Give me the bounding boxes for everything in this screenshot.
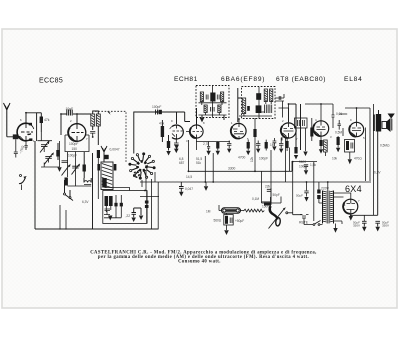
svg-text:+50µF: +50µF [235,219,244,223]
svg-text:EL84: EL84 [344,76,363,83]
tuning capacitor CV1 trimmers [38,132,62,172]
svg-text:50pF: 50pF [273,193,280,197]
svg-text:1M: 1M [206,210,211,214]
svg-text:,22: ,22 [126,214,131,218]
screen resistor comb [203,142,211,156]
volume pot P1 [206,205,244,214]
power transformer T5 [321,187,334,224]
ratio detector network [295,118,308,128]
heater wires V1 [60,205,66,230]
V2a ground [174,145,179,150]
anode resistor R2 [40,113,50,132]
svg-text:0,1M: 0,1M [252,197,259,201]
tube V6 EL84 [349,122,363,136]
svg-text:4700: 4700 [238,156,246,160]
FM antenna [4,103,11,137]
resistor R10 [216,142,220,156]
svg-text:ECC85: ECC85 [39,78,63,85]
resistor R7 [166,135,171,156]
tube envelope shading [68,124,356,214]
cathode R V5 [319,136,323,153]
wire tube top [26,113,37,141]
cap C7 [104,148,120,162]
resistor R14 [214,213,234,235]
svg-text:6X4: 6X4 [345,184,362,194]
heater run V7 [334,221,343,224]
cap C9 [104,195,123,218]
svg-text:14,5: 14,5 [186,175,192,179]
resistor R17 [97,150,100,199]
mains RETE [299,215,323,226]
svg-text:560Ω: 560Ω [214,219,222,223]
cap C16 0047 [179,182,193,196]
FM dipole antenna [388,114,395,131]
svg-text:470Ω: 470Ω [354,157,362,161]
svg-text:3300: 3300 [228,167,236,171]
svg-text:1,5k: 1,5k [310,163,316,167]
converter box frame [134,112,185,154]
oscillator box [65,135,89,152]
B+ arrow below transformer [333,224,337,233]
wires IF strip [239,104,301,150]
osc section wires [186,132,197,172]
tube V1a ECC85 triode a [17,123,34,141]
resistor R5 [105,196,109,212]
resistor R4 [83,152,86,178]
osc trimmer CV2 [62,152,71,177]
resistor R16 [310,118,313,141]
svg-text:2,7k: 2,7k [203,142,209,146]
wire V2 tops [177,108,197,125]
svg-text:6,3V: 6,3V [82,200,89,204]
svg-text:100pF: 100pF [152,105,161,109]
resistor R11 [246,140,250,156]
terminal blobs [145,201,149,204]
padder cap [65,178,68,186]
switch wires down [142,170,158,229]
wire V1b top [61,114,91,135]
filter cap C18 [353,221,367,232]
svg-text:0,5M: 0,5M [335,131,342,135]
tube V2b ECH81 triode [190,125,203,139]
svg-text:350V: 350V [353,224,360,228]
decoupling arrow [299,128,308,169]
cap C13 [227,141,231,154]
tube V5 6T8 triode [313,121,328,136]
oscillator coil L2 [84,178,91,186]
svg-text:47k: 47k [159,122,165,126]
svg-text:1500: 1500 [262,205,269,209]
tube V4 6T8 [281,123,296,139]
wires detector down [262,188,282,203]
grid cap C1 [14,139,18,157]
grid R V6 [332,136,340,161]
IF transformer T2 [238,87,275,123]
svg-text:0,047: 0,047 [185,187,193,191]
osc trimmer CV3 [68,152,85,187]
label 10pF top [66,107,74,116]
wire above AVC box [105,188,130,191]
vertical feeds mid [205,118,292,205]
svg-text:220V: 220V [321,187,330,191]
filter cap C19 [375,221,389,232]
cap C11 100pF [151,105,162,115]
right box outline [293,162,317,221]
cap C15 [279,138,283,153]
AVC box [103,191,147,224]
det cap C20 [267,189,271,191]
tube V1b ECC85 triode b [68,124,86,142]
resistor R12 [265,140,275,151]
cathode network V6 [345,140,382,175]
grid resistor R8 [159,120,165,142]
svg-text:1M: 1M [270,143,275,147]
wires output section [305,104,374,181]
mech link arrow [107,111,112,115]
T2 output wires [275,94,301,150]
wire antenna to grid [7,136,20,138]
bus wire heater [140,181,371,183]
cap C14 [256,141,260,154]
wire y196 [140,196,159,198]
pot mech zigzag link [244,209,265,212]
wire top node [37,112,42,114]
svg-text:6T8 (EABC80): 6T8 (EABC80) [276,76,326,83]
cathode resistor R1 [25,141,28,150]
bottom left rail [35,228,159,230]
pin numbers [20,118,365,207]
resistor R15 [264,202,271,205]
svg-text:0,5MΩ: 0,5MΩ [380,144,390,148]
svg-text:687: 687 [179,161,185,165]
svg-text:51k: 51k [196,161,202,165]
svg-text:100pF: 100pF [69,142,78,146]
transformer top feed [327,182,329,191]
svg-text:Consumo 40 watt.: Consumo 40 watt. [178,259,221,264]
comb header wire [196,141,230,143]
svg-text:0,0047: 0,0047 [110,148,120,152]
transformer taps [317,182,322,203]
IF transformer T1 [196,86,229,125]
mains ground [296,182,309,202]
cap C10 .22 [126,208,144,222]
coupling coil L1 [13,134,19,139]
tone lever arm [269,197,293,229]
FM IF coil pair L3 [91,111,101,145]
svg-text:100pF: 100pF [259,157,268,161]
svg-text:22k: 22k [265,185,271,189]
output transformer T4 [374,110,382,215]
rectifier wires [334,181,378,221]
cap C17 [230,218,244,224]
mech link dashes [95,111,126,163]
junction dots [204,181,206,183]
rotary band switch S1 [129,153,155,179]
6X4 cathode ground [349,216,353,221]
svg-text:10k: 10k [332,157,338,161]
V5 cathode coil [324,140,328,156]
svg-text:47k: 47k [44,118,50,122]
band switch S2 lever [19,175,27,191]
svg-text:350V: 350V [382,224,389,228]
6T8 output wires [282,137,290,182]
coupling parts between V5 V6 [332,110,344,136]
long left rail [34,141,36,229]
svg-text:50µF: 50µF [296,194,303,198]
tube V2a ECH81 heptode [170,125,184,139]
right rail of FM box [92,153,94,229]
svg-text:6BA6(EF89): 6BA6(EF89) [221,76,265,83]
resistor R6 [109,196,113,210]
tube V3 6BA6 [231,123,246,140]
AM input transformer T0 [97,162,116,190]
cap C12 [174,138,179,153]
ground stub on bus [205,182,207,186]
svg-text:12k: 12k [250,156,254,162]
resistor R3 [56,143,59,160]
loudspeaker LS [382,118,391,132]
cap C5 [90,132,95,138]
6T8 cathode parts [272,138,288,151]
bus wire B+ [188,170,292,172]
AM antenna [101,146,107,158]
resistor R13 [294,147,298,159]
svg-text:ECH81: ECH81 [174,76,198,83]
band switch contact S1a [64,180,74,201]
cap C8 [104,209,110,215]
tube V7 6X4 [343,199,358,214]
svg-text:100pF: 100pF [68,154,77,158]
svg-text:150: 150 [72,147,78,151]
ground arrow in box [108,216,113,221]
